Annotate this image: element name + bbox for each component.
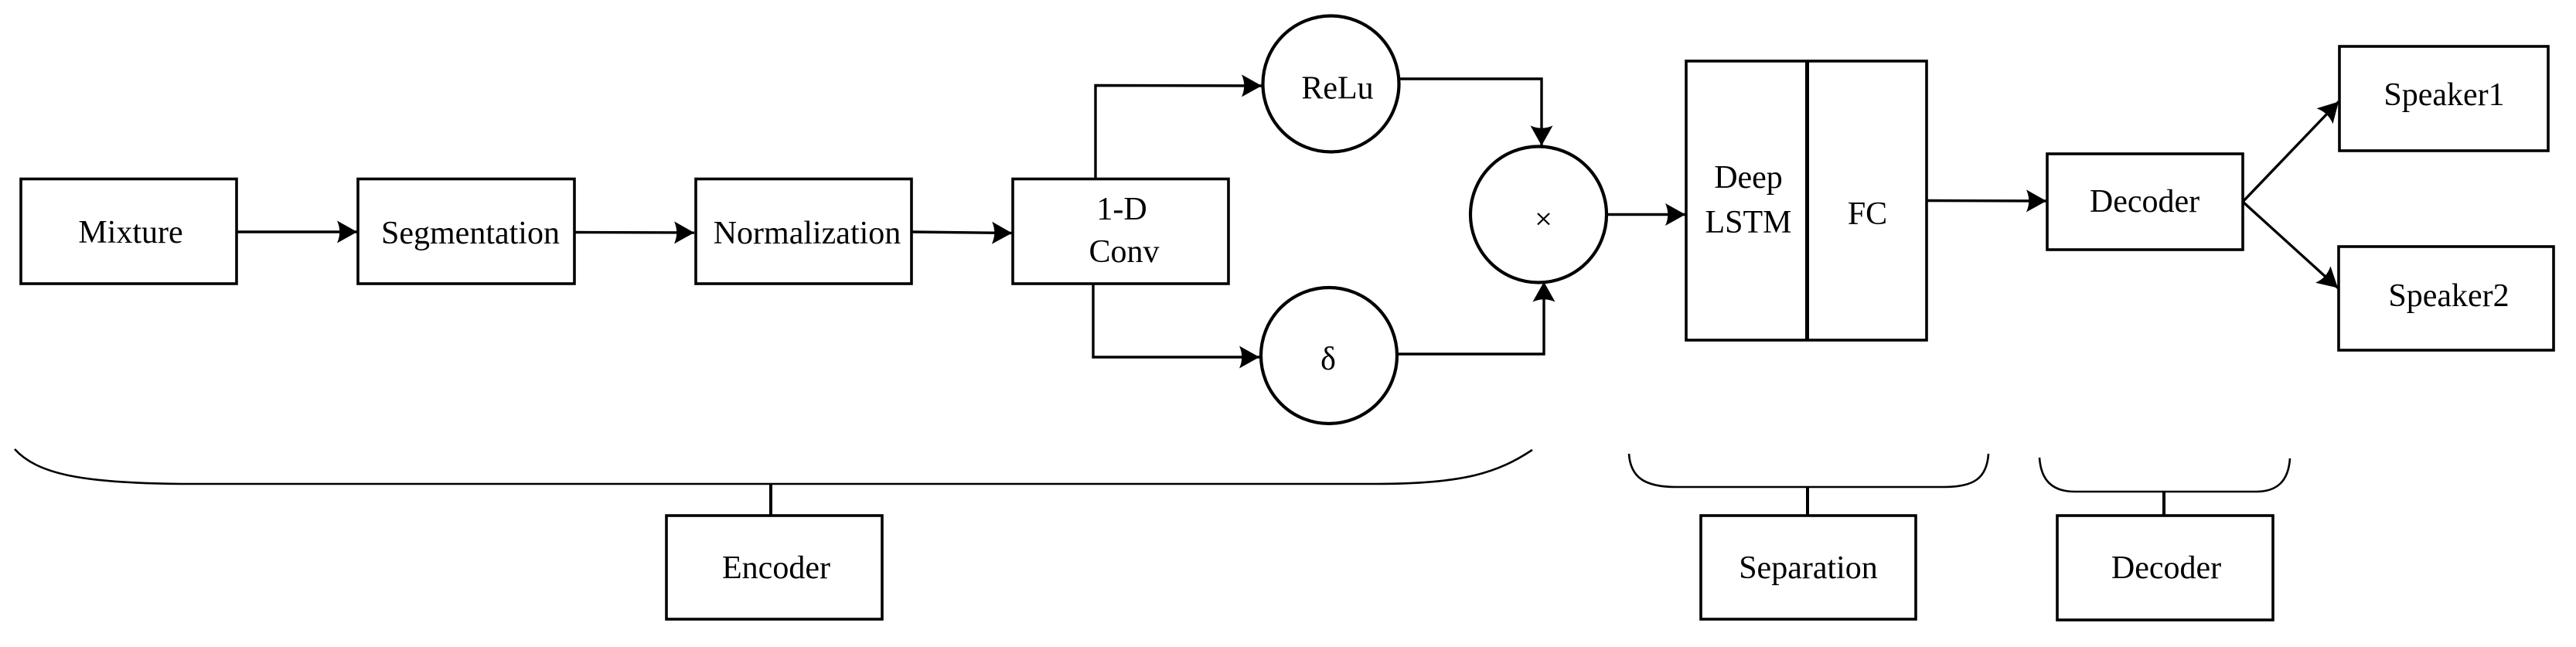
svg-text:Conv: Conv bbox=[1089, 234, 1159, 270]
box Segmentation bbox=[358, 179, 574, 284]
svg-text:Deep: Deep bbox=[1714, 160, 1783, 196]
svg-text:Mixture: Mixture bbox=[78, 215, 182, 250]
svg-text:LSTM: LSTM bbox=[1705, 205, 1791, 240]
svg-text:Decoder: Decoder bbox=[2090, 184, 2199, 220]
wire Decoder to Speaker2 bbox=[2243, 202, 2338, 288]
box 1-D Conv bbox=[1013, 179, 1228, 284]
box Normalization bbox=[696, 179, 911, 284]
svg-text:ReLu: ReLu bbox=[1301, 71, 1373, 107]
brace Decoder bbox=[2039, 458, 2290, 492]
svg-text:1-D: 1-D bbox=[1096, 192, 1147, 227]
brace Separation bbox=[1629, 454, 1988, 487]
wire Mixture to Segmentation bbox=[237, 230, 357, 233]
stem Decoder bbox=[2162, 492, 2165, 516]
stem Encoder bbox=[769, 484, 772, 516]
svg-text:Encoder: Encoder bbox=[722, 550, 830, 586]
wire Segmentation to Normalization bbox=[574, 231, 694, 234]
svg-text:Decoder: Decoder bbox=[2111, 550, 2221, 586]
wire multiply to Deep LSTM bbox=[1607, 213, 1685, 216]
wire Normalization to 1-D Conv bbox=[911, 232, 1012, 233]
box Deep LSTM + FC bbox=[1686, 61, 1927, 340]
svg-text:Normalization: Normalization bbox=[714, 216, 901, 251]
wire 1-D Conv to ReLu (branch up) bbox=[1095, 86, 1262, 179]
wire Decoder to Speaker1 bbox=[2243, 102, 2339, 203]
svg-text:FC: FC bbox=[1848, 196, 1887, 232]
box Decoder bbox=[2047, 154, 2243, 250]
stem Separation bbox=[1806, 487, 1809, 516]
svg-text:Separation: Separation bbox=[1739, 550, 1878, 586]
box Speaker1 bbox=[2339, 46, 2548, 151]
wire ReLu to multiply bbox=[1399, 79, 1542, 146]
wire 1-D Conv to delta (branch down) bbox=[1093, 284, 1259, 357]
circle ReLu bbox=[1263, 16, 1399, 152]
svg-text:Segmentation: Segmentation bbox=[381, 216, 560, 251]
box Decoder label bbox=[2057, 516, 2273, 620]
wire delta to multiply bbox=[1397, 282, 1544, 355]
svg-text:δ: δ bbox=[1320, 342, 1336, 377]
box Speaker2 bbox=[2339, 247, 2554, 350]
wire FC to Decoder bbox=[1927, 199, 2046, 203]
svg-text:Speaker1: Speaker1 bbox=[2383, 77, 2504, 113]
box Separation label bbox=[1701, 516, 1916, 619]
svg-text:Speaker2: Speaker2 bbox=[2388, 278, 2509, 314]
circle delta bbox=[1261, 288, 1397, 424]
circle multiply bbox=[1470, 147, 1607, 283]
box Encoder label bbox=[666, 516, 882, 619]
brace Encoder bbox=[15, 449, 1532, 484]
box Mixture bbox=[21, 179, 237, 284]
